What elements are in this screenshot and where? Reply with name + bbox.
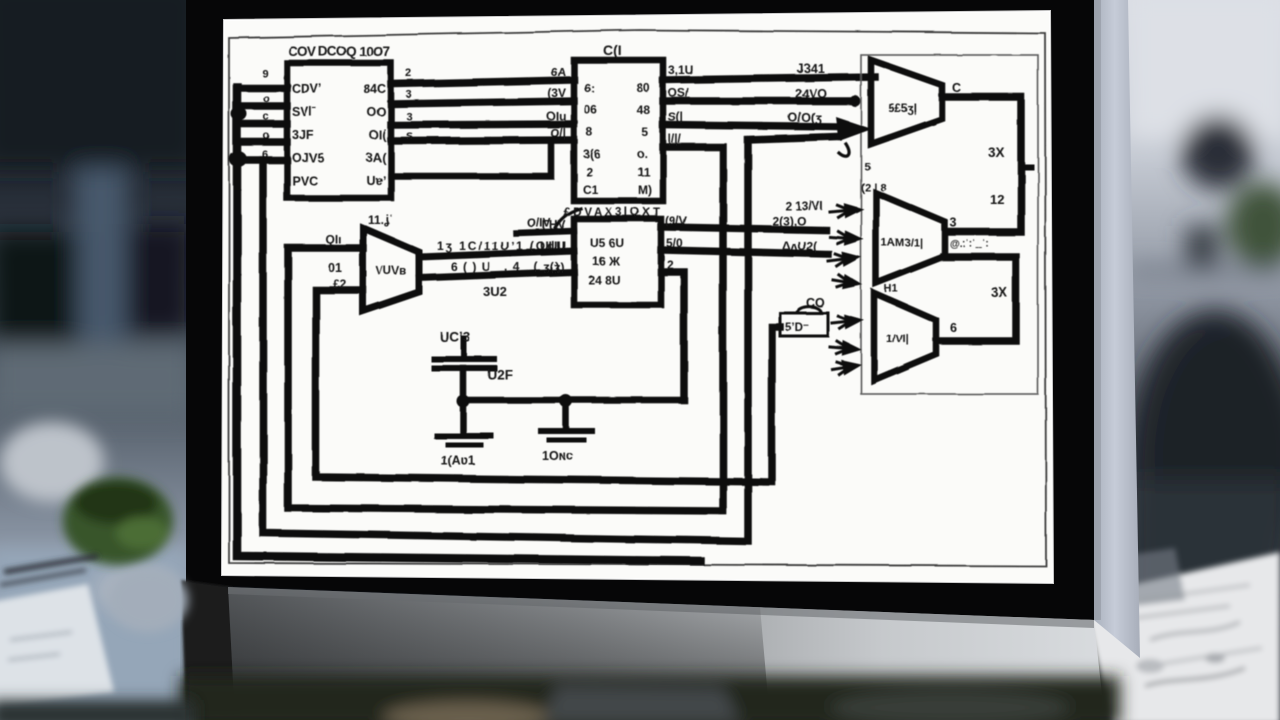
- monitor aluminum right edge: [1094, 0, 1140, 658]
- svg-text:3,1U: 3,1U: [668, 63, 693, 77]
- output net labels: [437, 216, 565, 299]
- svg-text:1AM3/1|: 1AM3/1|: [881, 237, 923, 249]
- ground G2: [541, 400, 592, 463]
- svg-text:84C: 84C: [363, 82, 386, 96]
- monitor bezel: [186, 0, 1094, 620]
- svg-text:24 8U: 24 8U: [588, 273, 620, 287]
- ground G1: [437, 400, 491, 468]
- wire: UF stub joining pin4 net: [391, 143, 551, 176]
- desk below: [180, 676, 1120, 720]
- svg-text:£DVAX3IQXT: £DVAX3IQXT: [564, 207, 660, 219]
- svg-text:OIu: OIu: [546, 109, 566, 123]
- svg-text:£2: £2: [333, 277, 347, 291]
- svg-text:S(|: S(|: [668, 110, 683, 124]
- svg-text:3(6: 3(6: [583, 147, 601, 161]
- VOL input labels: [325, 232, 347, 291]
- svg-text:COV DCOQ 10O7: COV DCOQ 10O7: [288, 44, 390, 59]
- svg-text:U2F: U2F: [487, 367, 513, 382]
- schematic page frame: [229, 30, 1046, 566]
- svg-text:3JF: 3JF: [292, 128, 314, 142]
- svg-text:OI(: OI(: [369, 128, 387, 142]
- svg-text:U5 6U: U5 6U: [590, 236, 624, 250]
- svg-text:48: 48: [637, 103, 651, 117]
- U1 left pin stubs: [239, 88, 287, 160]
- svg-text:11: 11: [637, 165, 650, 179]
- svg-text:o.: o.: [637, 147, 648, 161]
- svg-text:2(3),O: 2(3),O: [772, 214, 806, 228]
- svg-text:S: S: [406, 131, 413, 143]
- VOL output wires to U2: [419, 251, 574, 278]
- svg-text:C1: C1: [583, 183, 599, 197]
- svg-text:01: 01: [328, 261, 342, 275]
- svg-text:1/VI|: 1/VI|: [886, 333, 909, 345]
- svg-text:C: C: [952, 81, 961, 95]
- svg-text:PVC: PVC: [292, 174, 318, 188]
- svg-text:80: 80: [637, 81, 651, 95]
- component 50 box with CO label: [780, 296, 828, 336]
- svg-text:5: 5: [641, 125, 648, 139]
- svg-text:QIı: QIı: [325, 232, 341, 246]
- svg-text:24VO: 24VO: [795, 87, 827, 101]
- arrows into T2: [827, 203, 860, 290]
- node dot on wire 2: [850, 96, 861, 107]
- net labels mid wires: [788, 62, 827, 125]
- svg-text:5ʼD⁻: 5ʼD⁻: [785, 322, 809, 334]
- svg-text:o: o: [263, 130, 270, 142]
- svg-text:(ʒ): (ʒ): [550, 260, 564, 274]
- wire loop A to VOL input 2: [316, 290, 780, 482]
- capacitor C1: [434, 330, 513, 400]
- svg-text:UCʼ3: UCʼ3: [440, 330, 471, 345]
- U2 left pin labels: [540, 218, 566, 274]
- svg-text:5£5ʒļ: 5£5ʒļ: [888, 103, 916, 115]
- U1 right pin numbers: [406, 68, 413, 143]
- CCI right wires: [663, 77, 875, 511]
- svg-text:6A: 6A: [551, 65, 567, 79]
- screen: [222, 11, 1053, 583]
- svg-text:ΓHV: ΓHV: [542, 218, 566, 232]
- big arrow into T1 input 2: [836, 117, 872, 156]
- svg-text:1Oɴc: 1Oɴc: [542, 449, 573, 463]
- svg-text:9: 9: [262, 68, 268, 80]
- svg-text:M): M): [638, 183, 652, 197]
- svg-text:H1: H1: [884, 283, 898, 295]
- T1 output loop with labels 3X / 12: [942, 81, 1031, 232]
- svg-text:5/0: 5/0: [666, 236, 683, 250]
- svg-text:@.:ˈ:ˈˍˍˈ:: @.:ˈ:ˈˍˍˈ:: [950, 239, 989, 250]
- op-amp buffer VOL: [363, 213, 419, 311]
- U2 right wires: [661, 227, 828, 400]
- svg-text:2: 2: [586, 165, 593, 179]
- T3 output loop with 3X label: [938, 239, 1016, 341]
- svg-text:ΔʌU2(: ΔʌU2(: [782, 239, 817, 253]
- wire stub into U2 pin1: [516, 231, 574, 233]
- small labels under T1: [861, 161, 886, 194]
- svg-text:3: 3: [406, 89, 412, 101]
- monitor dark left edge: [181, 580, 240, 716]
- node junction wire: [463, 397, 684, 404]
- svg-text:3U2: 3U2: [483, 284, 507, 299]
- svg-text:2: 2: [667, 258, 674, 272]
- svg-text:(9/V: (9/V: [665, 214, 687, 228]
- wire: left bus to bottom loop D: [237, 87, 700, 561]
- net labels at T2 inputs: [772, 199, 823, 253]
- svg-text:CDVʼ: CDVʼ: [292, 82, 322, 96]
- buffer T2 (middle): [876, 193, 945, 283]
- svg-text:OJV5: OJV5: [292, 151, 324, 165]
- svg-text:8: 8: [586, 125, 593, 139]
- svg-text:2 13/VI: 2 13/VI: [785, 199, 823, 213]
- IC U2 (middle block): [564, 207, 661, 305]
- svg-text:3X: 3X: [991, 285, 1008, 300]
- IC U1 (top-left microcontroller): [287, 44, 391, 198]
- svg-text:J341: J341: [797, 62, 825, 76]
- svg-text:06: 06: [584, 103, 598, 117]
- svg-text:2: 2: [406, 68, 412, 80]
- net labels left of CCI: [546, 65, 566, 140]
- svg-text:(3V: (3V: [547, 86, 566, 100]
- U1 left pin numbers: [262, 68, 270, 161]
- wires U1 to CCI: [391, 80, 574, 141]
- arrow swoosh above U2 pin1: [554, 209, 581, 231]
- svg-text:11.ʝʿ: 11.ʝʿ: [368, 213, 394, 227]
- CCI right pin labels: [668, 63, 693, 146]
- svg-text:1(Aʋ1: 1(Aʋ1: [441, 454, 475, 468]
- svg-text:3: 3: [950, 216, 957, 230]
- svg-text:Uɐʼ: Uɐʼ: [367, 174, 386, 188]
- svg-text:C(I: C(I: [603, 42, 622, 58]
- monitor chin: [228, 587, 1102, 700]
- right background: window, webcam, plant, shelf, chair: [1125, 0, 1280, 620]
- svg-text:6: 6: [950, 321, 957, 335]
- buffer T3 (bottom): [874, 283, 936, 380]
- junction blobs on left bus: [229, 107, 247, 167]
- thin enclosure box around buffers: [861, 55, 1038, 394]
- wire: pin5 riser loop C: [263, 137, 838, 541]
- svg-text:12: 12: [990, 192, 1004, 207]
- svg-text:o: o: [263, 93, 270, 105]
- svg-text:3A(: 3A(: [366, 151, 387, 165]
- svg-text:5: 5: [864, 161, 870, 173]
- buffer T1 (top): [871, 60, 942, 144]
- svg-text:16 Ж: 16 Ж: [592, 254, 620, 268]
- svg-text:c: c: [263, 111, 269, 123]
- svg-text:VUVʙ: VUVʙ: [376, 266, 407, 278]
- svg-text:UUU: UUU: [540, 239, 566, 253]
- svg-text:O/|: O/|: [550, 126, 566, 140]
- svg-text:O/O(ʒ: O/O(ʒ: [788, 111, 822, 125]
- IC CCI (top-middle): [574, 42, 663, 201]
- svg-text:SVlˉ: SVlˉ: [292, 105, 316, 119]
- U2 right pin labels: [665, 214, 687, 272]
- svg-text:OS/: OS/: [668, 86, 689, 100]
- svg-text:OO: OO: [367, 105, 387, 119]
- wire loop B to VOL input 1: [288, 248, 723, 511]
- svg-text:3: 3: [406, 111, 412, 123]
- svg-text:|/|/: |/|/: [668, 132, 682, 146]
- arrows into T3: [829, 314, 860, 375]
- svg-text:6:: 6:: [584, 81, 595, 95]
- svg-text:3X: 3X: [988, 145, 1005, 160]
